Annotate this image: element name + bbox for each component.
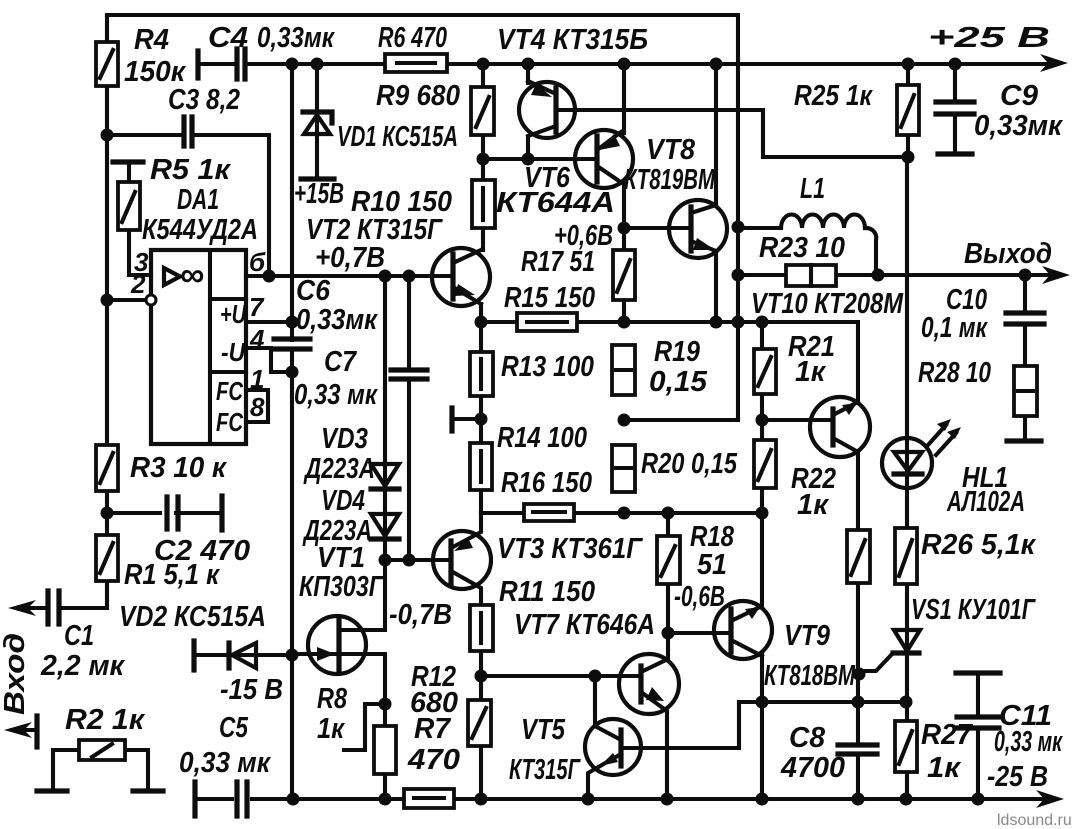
svg-text:КТ819ВМ: КТ819ВМ xyxy=(624,164,716,196)
svg-text:∞: ∞ xyxy=(180,256,204,294)
svg-text:R15 150: R15 150 xyxy=(504,282,595,314)
svg-text:R2 1к: R2 1к xyxy=(65,704,145,736)
svg-text:C6: C6 xyxy=(296,275,331,307)
svg-text:R8: R8 xyxy=(317,683,348,715)
svg-text:КТ644А: КТ644А xyxy=(496,187,615,219)
svg-text:1к: 1к xyxy=(317,713,345,745)
svg-text:0,33 мк: 0,33 мк xyxy=(179,747,271,779)
svg-text:R25 1к: R25 1к xyxy=(794,80,873,112)
svg-text:1к: 1к xyxy=(797,489,829,521)
svg-text:-15 В: -15 В xyxy=(220,674,283,706)
svg-text:DA1: DA1 xyxy=(177,184,219,216)
svg-text:FC: FC xyxy=(216,407,244,437)
svg-text:C5: C5 xyxy=(219,712,249,744)
svg-text:+0,7В: +0,7В xyxy=(315,242,385,274)
svg-text:R13 100: R13 100 xyxy=(501,351,594,383)
svg-text:1к: 1к xyxy=(795,356,826,388)
svg-text:R16 150: R16 150 xyxy=(501,467,592,499)
svg-text:C4: C4 xyxy=(208,22,248,54)
svg-text:0,15: 0,15 xyxy=(649,366,708,398)
svg-text:-0,7В: -0,7В xyxy=(389,599,452,631)
svg-text:-0,6В: -0,6В xyxy=(674,581,725,613)
svg-text:0,33 мк: 0,33 мк xyxy=(994,726,1063,758)
svg-text:0,33мк: 0,33мк xyxy=(974,110,1063,142)
svg-text:R9 680: R9 680 xyxy=(376,80,460,112)
svg-text:2,2 мк: 2,2 мк xyxy=(40,650,125,682)
svg-text:0,33мк: 0,33мк xyxy=(296,304,378,336)
svg-text:КП303Г: КП303Г xyxy=(299,571,384,603)
svg-text:б: б xyxy=(249,247,266,277)
svg-text:R27: R27 xyxy=(921,719,974,751)
svg-text:+25 В: +25 В xyxy=(928,22,1050,54)
svg-text:Вход: Вход xyxy=(0,633,31,715)
svg-text:КТ315Г: КТ315Г xyxy=(509,754,581,786)
svg-text:4: 4 xyxy=(249,324,265,354)
svg-text:0,33 мк: 0,33 мк xyxy=(294,379,378,411)
svg-text:470: 470 xyxy=(407,744,460,776)
svg-text:7: 7 xyxy=(249,292,265,322)
svg-text:R17 51: R17 51 xyxy=(521,246,595,278)
svg-text:+15В: +15В xyxy=(294,178,344,210)
svg-text:R1 5,1 к: R1 5,1 к xyxy=(124,559,220,591)
svg-text:VT5: VT5 xyxy=(521,714,566,746)
svg-text:1к: 1к xyxy=(927,752,961,784)
svg-text:R14 100: R14 100 xyxy=(497,422,587,454)
svg-text:2: 2 xyxy=(130,269,146,299)
svg-text:Д223А: Д223А xyxy=(303,453,375,485)
svg-text:FC: FC xyxy=(216,376,244,406)
svg-text:VT7 КТ646А: VT7 КТ646А xyxy=(514,609,655,641)
svg-text:VT3 КТ361Г: VT3 КТ361Г xyxy=(497,533,643,565)
svg-text:-U: -U xyxy=(221,337,246,367)
svg-text:КТ818ВМ: КТ818ВМ xyxy=(764,660,856,692)
svg-text:R7: R7 xyxy=(414,713,452,745)
svg-text:VS1 КУ101Г: VS1 КУ101Г xyxy=(911,594,1036,626)
svg-text:R5 1к: R5 1к xyxy=(150,154,231,186)
svg-text:R11 150: R11 150 xyxy=(499,576,595,608)
svg-text:C1: C1 xyxy=(64,620,94,652)
svg-text:R3 10 к: R3 10 к xyxy=(130,452,227,484)
svg-text:R19: R19 xyxy=(654,336,700,368)
svg-text:+U: +U xyxy=(220,299,247,329)
svg-text:VD2 КС515А: VD2 КС515А xyxy=(119,601,266,633)
svg-text:51: 51 xyxy=(697,549,727,581)
svg-text:L1: L1 xyxy=(800,173,825,205)
svg-text:R20 0,15: R20 0,15 xyxy=(641,448,738,480)
svg-text:VT10 КТ208М: VT10 КТ208М xyxy=(751,288,904,320)
svg-text:R28 10: R28 10 xyxy=(918,357,991,389)
svg-text:1: 1 xyxy=(250,364,264,394)
svg-text:VD3: VD3 xyxy=(321,423,368,455)
svg-text:C9: C9 xyxy=(1000,80,1038,112)
svg-text:VT8: VT8 xyxy=(646,134,696,166)
svg-text:R4: R4 xyxy=(134,24,169,56)
svg-text:VD1 КС515А: VD1 КС515А xyxy=(337,121,458,153)
svg-text:К544УД2А: К544УД2А xyxy=(142,214,258,246)
svg-text:R26 5,1к: R26 5,1к xyxy=(921,529,1036,561)
svg-text:C3 8,2: C3 8,2 xyxy=(168,84,240,116)
svg-text:VT4 КТ315Б: VT4 КТ315Б xyxy=(497,24,648,56)
svg-text:VT1: VT1 xyxy=(317,542,365,574)
svg-text:-25 В: -25 В xyxy=(987,761,1048,793)
svg-text:ldsound.ru: ldsound.ru xyxy=(997,812,1072,829)
svg-text:0,33мк: 0,33мк xyxy=(257,22,335,54)
svg-text:R6 470: R6 470 xyxy=(378,22,447,54)
svg-text:4700: 4700 xyxy=(780,752,845,784)
svg-text:Выход: Выход xyxy=(964,238,1052,270)
svg-text:АЛ102А: АЛ102А xyxy=(946,486,1025,518)
svg-text:R23 10: R23 10 xyxy=(759,232,845,264)
svg-text:VD4: VD4 xyxy=(321,485,365,517)
svg-text:8: 8 xyxy=(250,392,265,422)
svg-text:VT9: VT9 xyxy=(784,620,830,652)
svg-text:C8: C8 xyxy=(789,722,826,754)
svg-text:0,1 мк: 0,1 мк xyxy=(921,312,988,344)
svg-text:C7: C7 xyxy=(324,346,358,378)
